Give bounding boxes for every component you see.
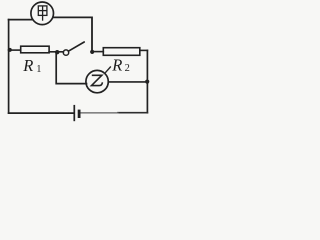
wire bottom-right (right rail to battery)	[80, 112, 147, 114]
node D (junction R1 / switch / meter 乙 branch)	[55, 50, 59, 54]
wire meter 乙 to node C	[109, 81, 148, 83]
meter 乙 (U2)	[86, 70, 108, 92]
meter 甲 (U1)	[31, 2, 54, 25]
battery BT1 long plate (positive)	[73, 105, 75, 121]
svg-text:2: 2	[125, 63, 130, 74]
wire bottom-left (battery to left rail)	[9, 112, 74, 114]
node C (meter 乙 to right rail junction)	[145, 80, 149, 84]
wire top-right (meter 甲 to switch node B)	[53, 17, 92, 50]
switch S1 blade (open)	[68, 42, 84, 51]
wire node B to resistor R2	[92, 51, 103, 53]
switch S1 pivot	[63, 50, 68, 55]
node A (left rail junction to R1)	[8, 48, 12, 52]
label R2	[111, 56, 130, 75]
resistor R1	[21, 46, 49, 53]
wire R1 to switch pivot	[49, 51, 63, 53]
wire right rail (down to battery-)	[146, 50, 148, 112]
battery BT1 short plate (negative)	[78, 110, 81, 118]
label R1	[22, 56, 41, 75]
svg-text:1: 1	[36, 64, 41, 75]
wire node A to resistor R1	[9, 49, 21, 51]
svg-text:R: R	[111, 56, 122, 75]
wire left rail (up to meter 甲)	[8, 20, 10, 114]
svg-text:R: R	[22, 56, 33, 75]
wire R2 to right rail	[140, 49, 148, 51]
node B (switch right junction)	[90, 50, 94, 54]
resistor R2	[103, 48, 140, 56]
stray diagonal mark near R2 label	[105, 67, 111, 73]
wire top-left (battery+ to meter 甲)	[9, 19, 32, 21]
wire meter 乙 branch (node D down and right)	[56, 52, 86, 84]
